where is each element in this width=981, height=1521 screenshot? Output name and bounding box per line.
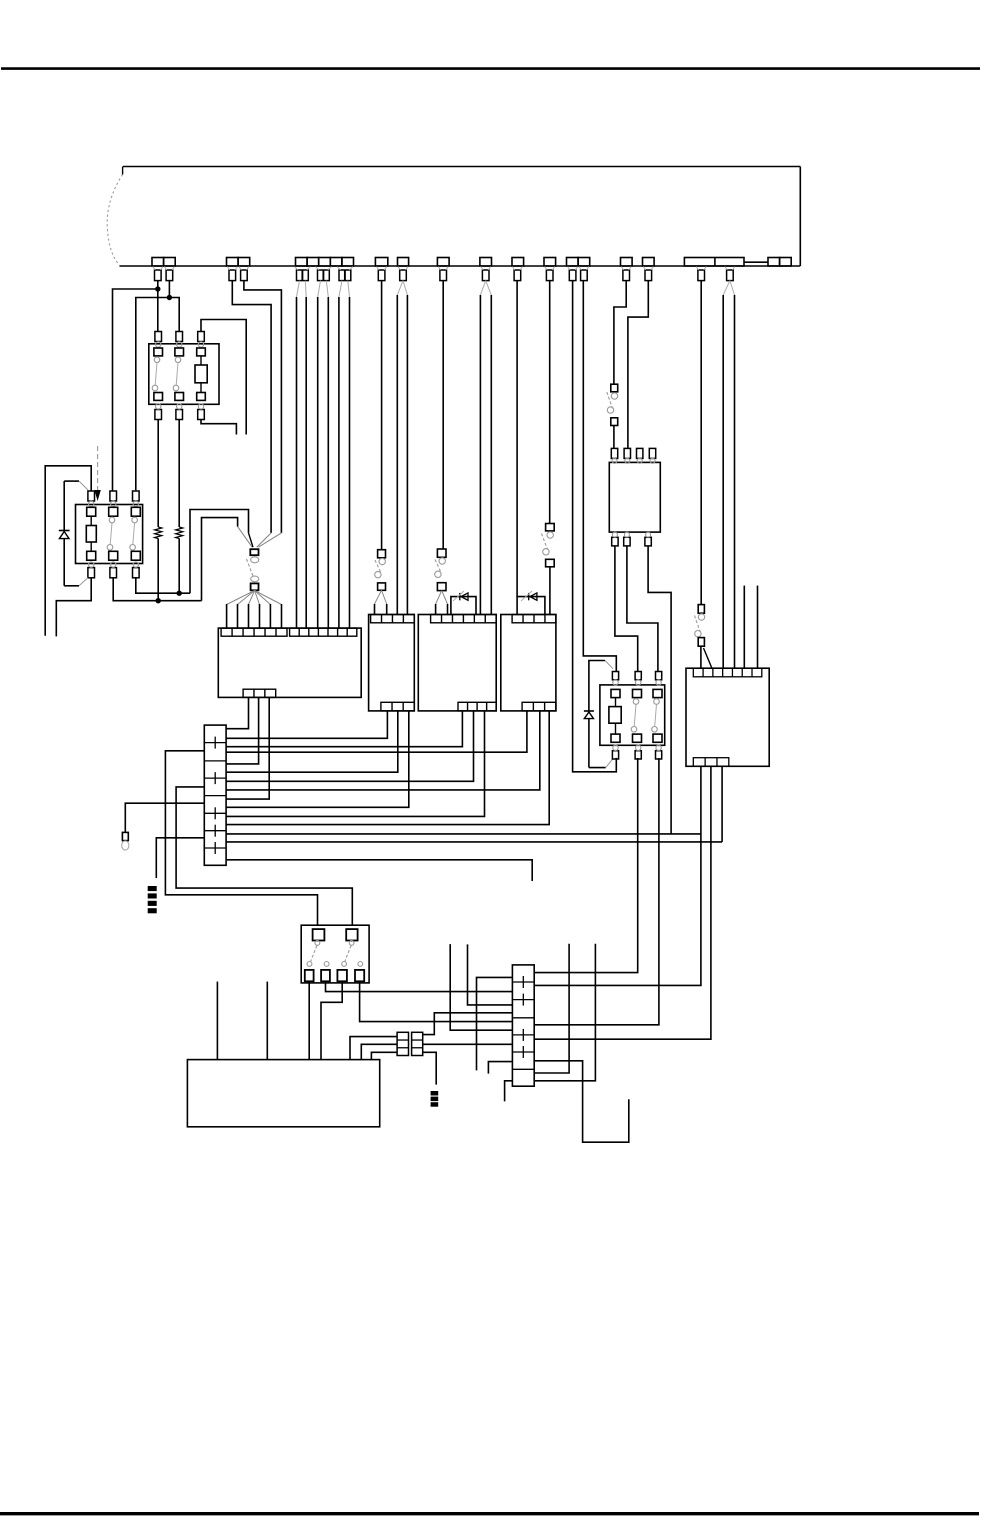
J4 bottom strip: [522, 702, 556, 711]
component box B4: [686, 668, 769, 766]
junction dot A1: [155, 286, 160, 291]
resistor R-b: [176, 527, 183, 539]
relay R1 bottom terminals: [155, 404, 204, 420]
component box J4: [501, 615, 556, 711]
label L1 (vertical text): [148, 886, 157, 913]
wire JC2 left stub v467: [468, 944, 513, 1005]
wire JC2 to R3 pin3: [534, 758, 659, 1025]
wire R4 pin3 long down: [648, 546, 671, 834]
wire rail1 riser to splice S1: [202, 518, 238, 601]
wire R2 col2 bottom to rail1: [113, 578, 201, 601]
switch SW4: [542, 524, 555, 567]
wire JC1 long to B4 bottom3: [226, 841, 722, 843]
wire JC2 left stub dangle a: [488, 1062, 512, 1074]
junction connector JC2: [512, 965, 534, 1086]
wire R4 pin2 to R3 top pin3: [627, 546, 658, 672]
wire JC2 jog stub to hook: [534, 1061, 629, 1142]
wire M2 fork long down: [723, 281, 734, 669]
wire JC2 to R3 pin2: [534, 758, 638, 973]
wire J2-b3 to JC1: [226, 711, 409, 807]
wire R1 pin1 with resistor to splice rail: [157, 420, 159, 528]
wire JC2 left stub v476: [477, 977, 513, 1070]
splice switch S1: [247, 549, 259, 590]
connector pins row on harness box: [152, 258, 791, 267]
wire M1 to switch SW6: [700, 281, 702, 605]
wire J1-b1 to JC1: [226, 697, 248, 728]
junction block J1 box: [218, 628, 361, 697]
inline connector IC left: [397, 1032, 408, 1055]
wire R1 pin3 bottom stub: [201, 420, 236, 435]
relay R2 bottom terminals: [88, 562, 139, 578]
SW6 legs into B4: [701, 646, 712, 668]
relay R1 top terminals: [155, 332, 204, 348]
relay R2 inner contacts: [86, 507, 140, 560]
wire J1-b3 to JC1: [226, 697, 269, 799]
wire B4 bottom3 down: [721, 766, 723, 842]
wire A2 branch to relay R1 pin2: [169, 298, 179, 332]
B4 top strip: [693, 668, 762, 677]
wire feed R2 col1: [45, 466, 91, 636]
J3 top strip: [431, 615, 497, 623]
relay R4 bottom terminals: [612, 532, 652, 546]
wire JC1 to connector stub: [125, 803, 204, 832]
wire J2-b1 to JC1: [226, 711, 387, 738]
wire R1 pin2 with resistor to rail2: [178, 420, 180, 528]
pin terminals below harness edge: [153, 267, 735, 281]
wire L to R4 pin2: [628, 281, 648, 449]
inline connector IC right: [412, 1032, 423, 1055]
wire stub into B4 a: [743, 586, 745, 669]
wire JC1 stub dangle: [226, 860, 532, 881]
wire K to switch SW1: [614, 281, 626, 385]
wire R4 pin1 to R3 top pin2: [615, 546, 638, 672]
J4 top strip: [512, 615, 556, 623]
relay R3 bottom terminals: [612, 745, 661, 759]
splice S1 fan to junction block J1: [227, 591, 282, 629]
wire R2 col1 bottom dangle: [56, 578, 91, 637]
wire SW1 to R4 pin1: [613, 426, 615, 449]
J1 bottom connector strip: [243, 689, 276, 697]
key arrow into R2: [97, 446, 99, 492]
SW5 top contacts: [313, 929, 358, 940]
wires C group to junction block J1: [297, 281, 350, 628]
wire JC2 to riser v595: [534, 944, 595, 1081]
wire G fork into J3: [480, 281, 491, 615]
wire JC2 to B4 bottom2: [534, 766, 711, 1039]
wire IC-L1 to B5: [350, 1037, 397, 1060]
wire J4-b2 to JC1: [226, 711, 540, 790]
switch box SW5: [301, 925, 369, 983]
relay R1 box: [149, 344, 219, 405]
relay R2 top terminals: [88, 491, 139, 506]
wire IC-R2 to JC2: [423, 1043, 513, 1045]
bottom page rule: [0, 1512, 979, 1515]
wire D1 to switch SW2: [381, 281, 383, 550]
relay R1 inner contacts: [152, 348, 207, 400]
wire JC1 to lamp switch SW5 pin2: [176, 787, 352, 925]
wire J1-b2 to JC1: [226, 697, 259, 764]
SW5 blades: [307, 941, 363, 967]
component box J3: [418, 615, 496, 711]
wire J4-b1 to JC1: [226, 711, 527, 752]
component box B5: [187, 1060, 379, 1127]
wire JC2 to riser v569: [534, 944, 569, 1073]
wire JC1 long to R4 pin3 tee: [226, 833, 701, 835]
wire SW5-2 to JC2: [326, 981, 513, 991]
J3 bottom strip: [458, 702, 496, 711]
J1 top connector strip right: [290, 628, 357, 636]
diode bracket D-J3: [451, 591, 476, 615]
wire IC-L3 to B5: [371, 1052, 397, 1059]
junction dot rail2: [177, 591, 182, 596]
wire stub into B5 a: [216, 982, 218, 1060]
wire J1pin long to R3 pin1 bottom loop: [573, 281, 617, 772]
SW2 fan into J2: [375, 590, 387, 614]
wire I to switch SW4: [549, 281, 551, 524]
wire J3-b3 to JC1: [226, 711, 484, 817]
switch SW2: [375, 550, 386, 591]
SW5 bottom contacts: [305, 970, 364, 981]
relay R3 top terminals: [612, 672, 661, 686]
J1 top connector strip left: [221, 628, 287, 636]
diode bracket D-J4: [517, 591, 545, 615]
component box J2: [369, 615, 415, 711]
wire SW4 into J4: [549, 567, 551, 615]
junction dot rail1: [156, 598, 161, 603]
J2 bottom strip: [381, 702, 414, 711]
junction connector JC1: [204, 725, 226, 865]
wire SW5-1 to box B5: [308, 981, 310, 1059]
label L2 (vertical text): [431, 1091, 439, 1107]
resistor R-a: [155, 527, 162, 539]
wire R2 col3 bottom to rail2: [136, 578, 190, 593]
wire JC1 to label L1: [156, 838, 204, 878]
wire H into J4 bracket: [516, 281, 518, 597]
relay R3 coil: [609, 707, 621, 724]
wire J4-b3 to JC1: [226, 711, 549, 825]
wire D2 fork into J2: [397, 281, 407, 615]
wire IC-R1 to JC2: [423, 1013, 513, 1035]
wire J2-b2 to JC1: [226, 711, 398, 772]
junction dot A2: [167, 295, 172, 300]
instrument panel harness box: [107, 167, 800, 267]
wire B1 to splice riser: [232, 281, 271, 533]
relay R4 box: [609, 462, 660, 532]
relay R4 top terminals: [611, 448, 655, 463]
wire SW5-4 to JC2: [360, 981, 513, 1021]
relay R2 coil: [86, 526, 96, 543]
wire J3-b1 to JC1: [226, 711, 462, 747]
wire A1 to relay R1 pin1: [157, 281, 159, 332]
wire R1 pin3 top stub: [201, 320, 246, 435]
wire IC-L2 to B5: [361, 1044, 397, 1059]
wire A2 down: [168, 281, 170, 298]
wire F to switch SW3: [442, 281, 444, 549]
wire A1 branch to relay R2 col2: [113, 289, 158, 491]
switch SW3: [435, 549, 446, 591]
switch SW6: [695, 605, 705, 647]
J2 top strip: [371, 615, 415, 623]
diode D2 branch: [59, 481, 88, 586]
B4 bottom strip: [693, 758, 729, 767]
relay R1 coil: [195, 365, 207, 383]
top page rule: [1, 67, 980, 70]
relay R3 box: [600, 685, 665, 745]
wire JC2 left stub v450: [450, 944, 512, 1030]
relay R2 box: [76, 505, 143, 564]
wire SW5-3 to box B5: [321, 981, 342, 1059]
connector terminal stub: [122, 832, 128, 840]
switch SW1: [607, 384, 618, 425]
wire IC-R3 to label L2: [423, 1052, 437, 1084]
wire A2 branch to relay R2 col3: [136, 298, 170, 491]
wire rail2 riser to splice S1: [190, 510, 249, 594]
wire JC2 left stub dangle b: [505, 1081, 513, 1102]
diode D3 branch: [584, 661, 613, 768]
wire B2 to splice riser: [244, 281, 282, 533]
wire J2pin long to R3 pin1 top: [583, 281, 616, 672]
wire stub into B5 b: [266, 982, 268, 1060]
wire JC1 to lamp switch SW5 pin1: [165, 751, 317, 925]
wire JC2 to B4 bottom1: [534, 766, 701, 985]
wire stub into B4 b: [757, 586, 759, 669]
SW3 fan into J3: [436, 591, 448, 615]
wire J3-b2 to JC1: [226, 711, 473, 781]
relay R3 inner contacts: [609, 689, 662, 742]
